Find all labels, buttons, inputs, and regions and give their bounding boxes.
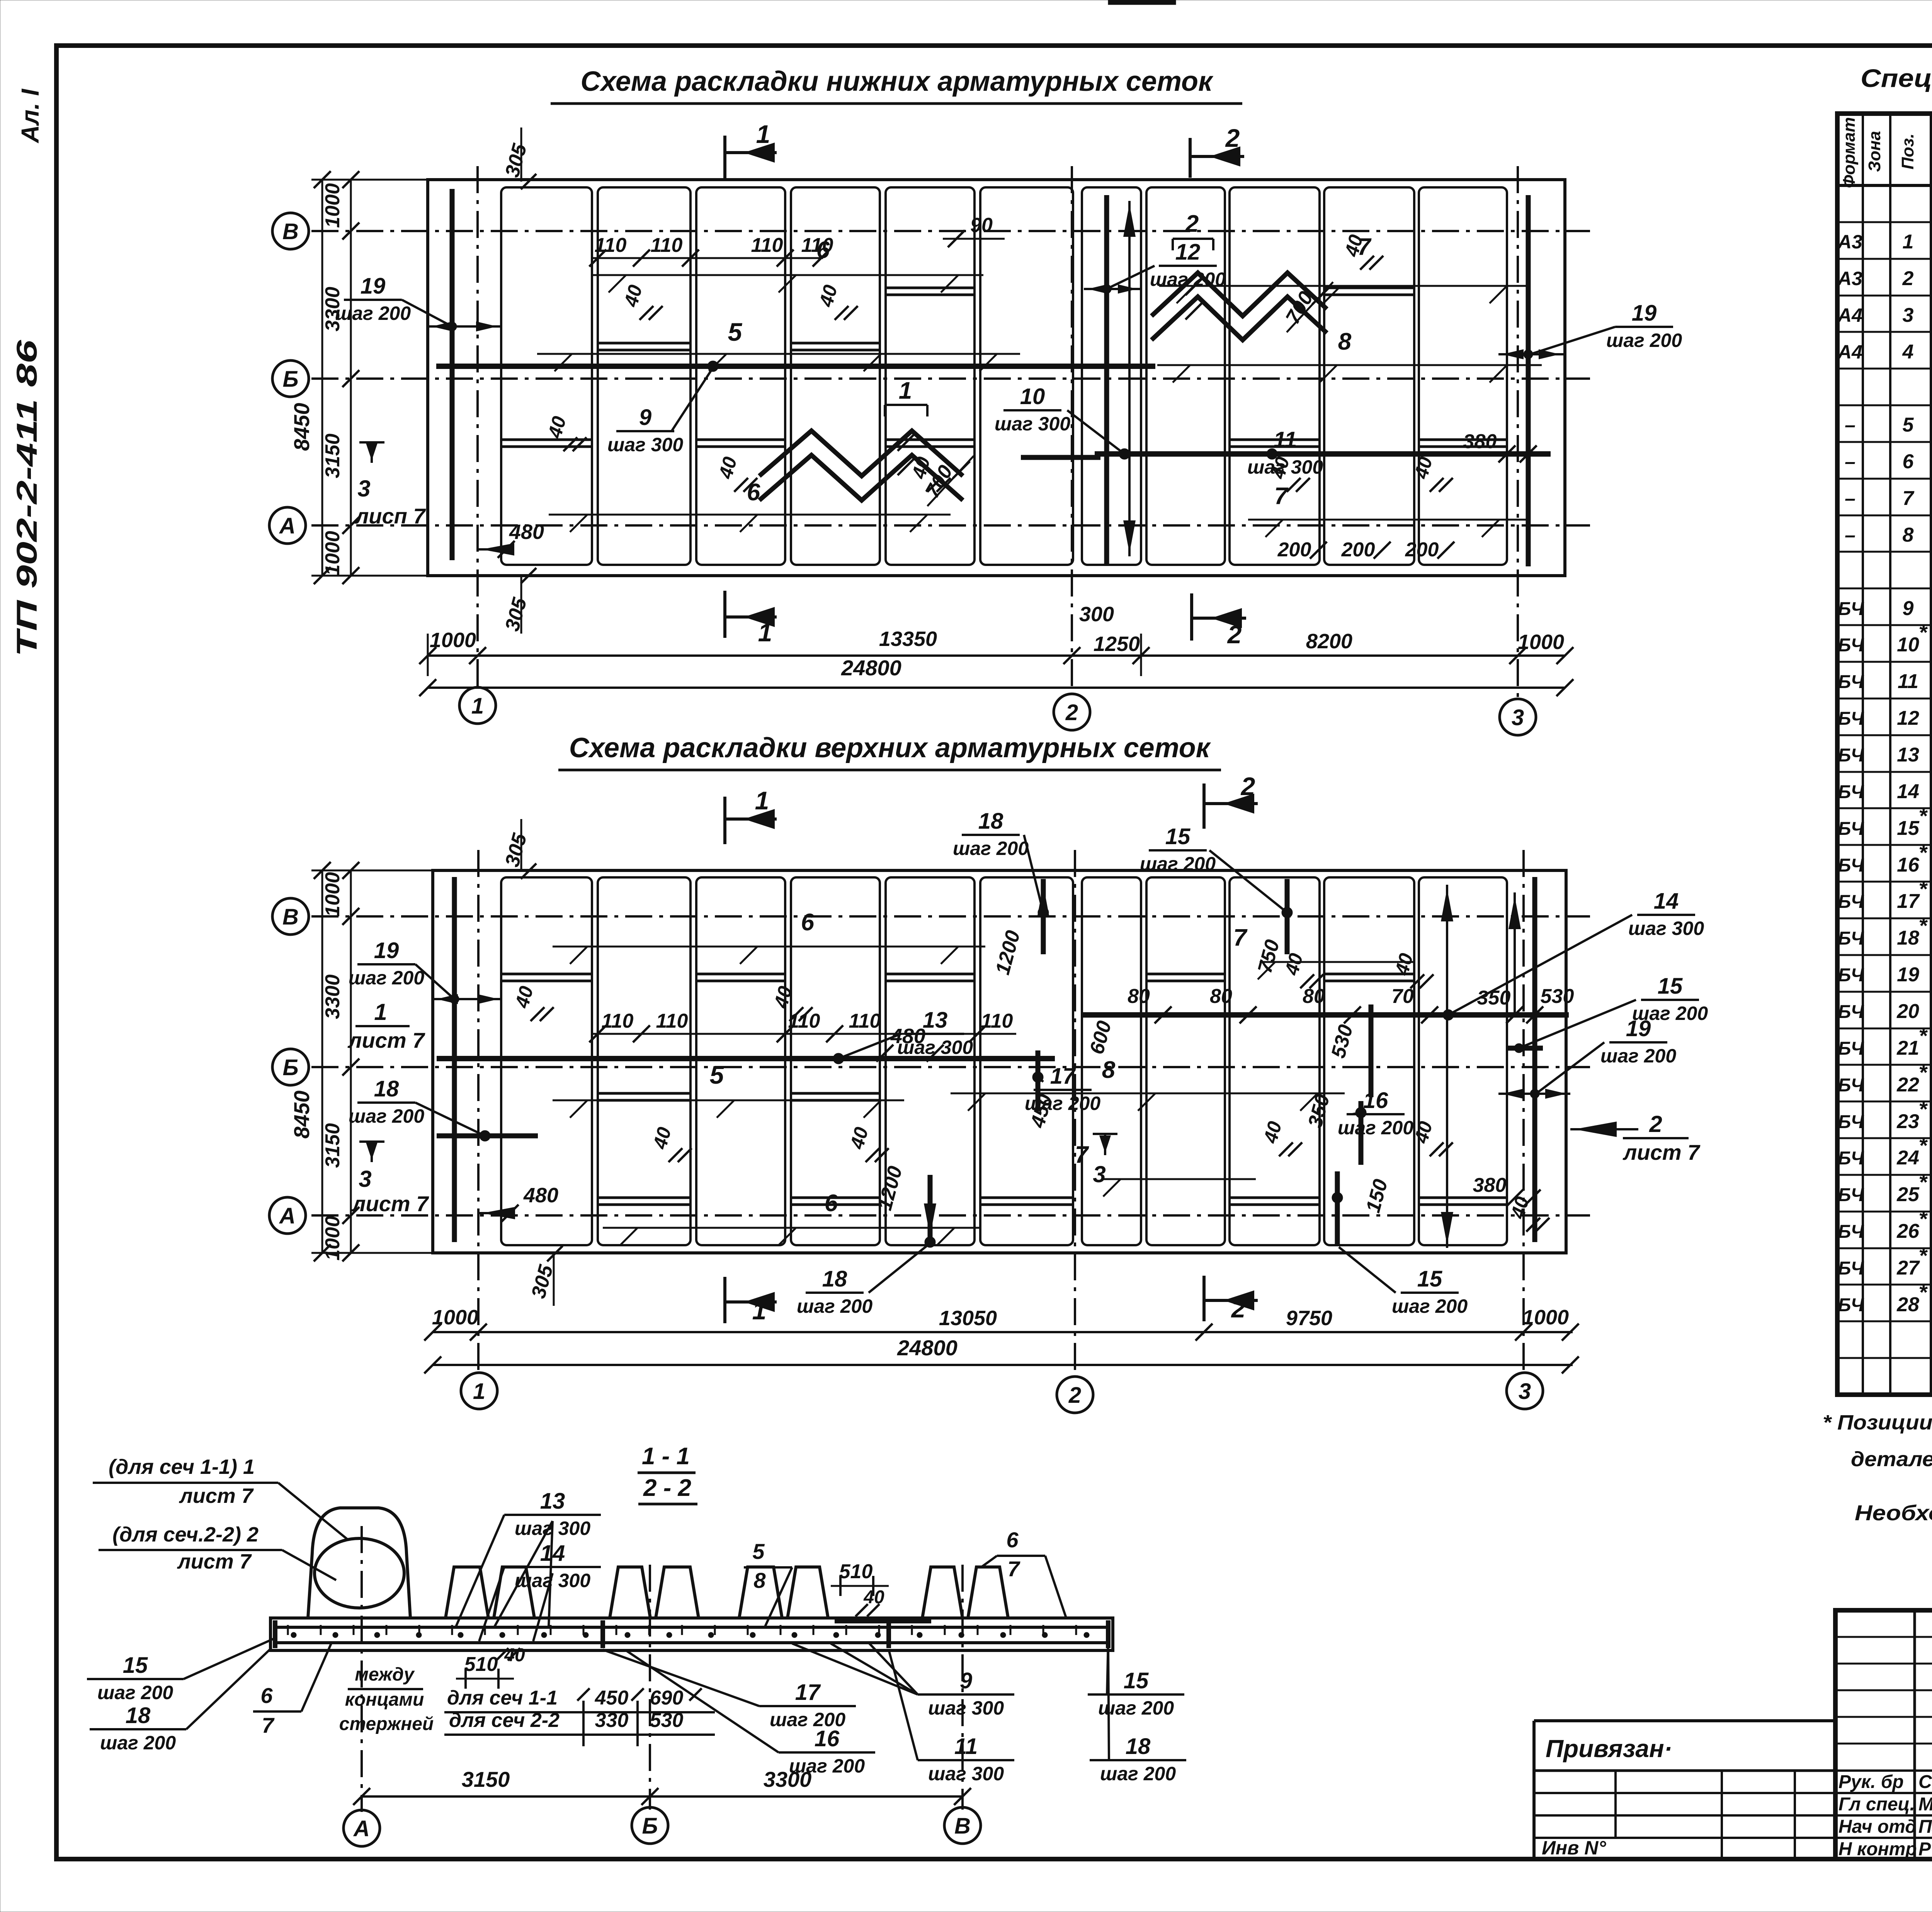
vertical double-arrow dim (upper plan) <box>1446 885 1448 1248</box>
svg-text:БЧ: БЧ <box>1838 1038 1864 1059</box>
plan outline (lower mesh layout) <box>428 180 1565 576</box>
svg-text:1000: 1000 <box>321 872 344 917</box>
svg-text:2: 2 <box>1225 124 1240 152</box>
section axis А <box>361 1526 363 1812</box>
svg-text:1000: 1000 <box>430 629 476 652</box>
svg-text:Панченко: Панченко <box>1918 1817 1932 1837</box>
svg-text:А: А <box>353 1816 370 1841</box>
svg-text:В: В <box>282 219 299 244</box>
svg-text:6: 6 <box>825 1190 838 1217</box>
svg-text:18: 18 <box>978 809 1003 834</box>
svg-text:16: 16 <box>1363 1088 1388 1113</box>
rebar bar 14 thick horizontal right (upper plan) <box>1082 1012 1569 1018</box>
svg-text:Спецификация к схемам армир: Спецификация к схемам армирования днища <box>1861 64 1932 92</box>
svg-text:300: 300 <box>1079 603 1114 626</box>
svg-text:690: 690 <box>650 1687 684 1709</box>
svg-text:БЧ: БЧ <box>1838 635 1864 656</box>
svg-text:Б: Б <box>282 367 298 392</box>
svg-text:*: * <box>1918 840 1928 865</box>
axis circle 2 <box>1054 694 1090 730</box>
svg-text:6: 6 <box>801 909 815 936</box>
svg-text:480: 480 <box>509 520 544 544</box>
axis circle В <box>272 213 309 249</box>
axis line А <box>311 524 1590 527</box>
svg-text:БЧ: БЧ <box>1838 1258 1864 1279</box>
axis line 2 vertical (upper plan) <box>1074 850 1076 1377</box>
svg-text:110: 110 <box>751 234 783 257</box>
svg-text:18: 18 <box>126 1703 151 1728</box>
rebar bar 17 short vertical <box>1036 1050 1041 1111</box>
svg-text:3150: 3150 <box>321 433 344 478</box>
section axis В <box>961 1565 964 1810</box>
svg-text:шаг 200: шаг 200 <box>797 1295 872 1317</box>
svg-text:18: 18 <box>374 1076 399 1101</box>
axis line В <box>311 230 1590 232</box>
axis line 3 vertical (upper plan) <box>1522 850 1525 1373</box>
svg-text:8: 8 <box>1338 328 1352 355</box>
axis circle 2 (upper plan) <box>1057 1377 1093 1413</box>
axis line 1 vertical <box>476 166 479 687</box>
svg-text:12: 12 <box>1175 240 1201 265</box>
svg-text:2: 2 <box>1902 267 1914 290</box>
svg-text:3: 3 <box>1093 1161 1105 1187</box>
svg-text:90: 90 <box>970 214 993 236</box>
svg-text:А4: А4 <box>1837 304 1862 326</box>
svg-text:А3: А3 <box>1837 268 1862 289</box>
svg-text:шаг 300: шаг 300 <box>1628 918 1704 939</box>
svg-text:шаг 200: шаг 200 <box>1140 853 1216 875</box>
svg-text:110: 110 <box>595 234 627 257</box>
axis line Б (upper plan) <box>311 1066 1590 1068</box>
svg-text:*: * <box>1918 1133 1928 1157</box>
svg-text:5: 5 <box>752 1539 765 1564</box>
section mark 1 top <box>723 136 726 180</box>
svg-text:Привязан·: Привязан· <box>1546 1735 1672 1762</box>
svg-text:14: 14 <box>1897 780 1919 803</box>
svg-text:БЧ: БЧ <box>1838 672 1864 692</box>
svg-text:15: 15 <box>123 1653 148 1678</box>
svg-text:3: 3 <box>359 1166 371 1192</box>
slab stirrup ticks <box>287 1625 289 1635</box>
scan artifact top edge <box>1108 0 1176 5</box>
svg-text:3: 3 <box>1519 1379 1531 1404</box>
svg-text:шаг 200: шаг 200 <box>335 303 411 324</box>
svg-text:шаг 200: шаг 200 <box>1392 1295 1468 1317</box>
svg-text:БЧ: БЧ <box>1838 1222 1864 1242</box>
svg-text:Гл спец.: Гл спец. <box>1838 1794 1915 1815</box>
section mark 2 top <box>1189 138 1192 178</box>
rebar bar 18 short vertical bottom <box>928 1175 933 1242</box>
svg-text:концами: концами <box>345 1689 424 1710</box>
svg-text:1000: 1000 <box>432 1306 478 1329</box>
svg-text:2: 2 <box>1185 211 1199 237</box>
svg-text:2: 2 <box>1240 772 1255 800</box>
mesh sheet splits top band <box>598 342 690 345</box>
svg-text:12: 12 <box>1897 707 1919 729</box>
bottom dimension row 2 (24800) <box>428 687 1565 689</box>
svg-text:19: 19 <box>374 938 399 963</box>
svg-text:380: 380 <box>1473 1174 1507 1196</box>
svg-text:1: 1 <box>755 786 769 815</box>
svg-text:110: 110 <box>602 1010 634 1032</box>
axis circle В (upper plan) <box>272 898 309 935</box>
svg-text:200: 200 <box>1341 539 1375 561</box>
svg-text:для сеч 2-2: для сеч 2-2 <box>449 1709 560 1732</box>
axis circle 3 (upper plan) <box>1507 1373 1543 1409</box>
svg-text:шаг 200: шаг 200 <box>789 1755 865 1777</box>
svg-text:3150: 3150 <box>321 1123 344 1168</box>
svg-text:17: 17 <box>795 1680 821 1705</box>
svg-text:80: 80 <box>1210 985 1232 1008</box>
svg-text:19: 19 <box>1632 301 1657 326</box>
svg-text:4: 4 <box>1902 341 1914 363</box>
svg-text:13350: 13350 <box>879 627 937 651</box>
svg-text:шаг 200: шаг 200 <box>100 1732 176 1754</box>
svg-text:110: 110 <box>849 1010 881 1032</box>
section mark 1 bottom (upper plan) <box>723 1277 726 1323</box>
svg-text:А3: А3 <box>1837 231 1862 253</box>
svg-text:18: 18 <box>1897 927 1919 949</box>
left dimension column (top plan) <box>350 180 352 576</box>
section mark 1 bottom <box>723 591 726 638</box>
svg-text:А: А <box>279 1203 296 1229</box>
svg-text:7: 7 <box>1903 487 1915 510</box>
svg-text:15: 15 <box>1897 817 1920 840</box>
mesh sheet columns (upper plan) <box>501 877 592 1245</box>
rebar bar 3 (short thick horizontal) <box>1021 455 1100 460</box>
svg-text:1 - 1: 1 - 1 <box>642 1443 690 1470</box>
svg-text:19: 19 <box>1626 1016 1651 1041</box>
svg-text:27: 27 <box>1896 1257 1920 1279</box>
svg-text:Миллер: Миллер <box>1918 1794 1932 1815</box>
svg-text:БЧ: БЧ <box>1838 892 1864 912</box>
rebar bar 13 thick horizontal (upper plan) <box>437 1056 1055 1061</box>
svg-text:В: В <box>282 904 299 930</box>
svg-text:480: 480 <box>890 1025 925 1048</box>
svg-text:6: 6 <box>260 1683 273 1708</box>
svg-text:–: – <box>1845 488 1855 509</box>
svg-text:Нач отд: Нач отд <box>1838 1817 1917 1837</box>
svg-text:БЧ: БЧ <box>1838 1295 1864 1315</box>
label 3 mark (upper plan) <box>1104 1134 1106 1155</box>
svg-text:1: 1 <box>752 1296 767 1325</box>
axis circle 3 <box>1500 699 1536 735</box>
axis circle А (upper plan) <box>269 1197 306 1234</box>
svg-text:13050: 13050 <box>939 1307 997 1330</box>
svg-text:Рук. бр: Рук. бр <box>1838 1772 1904 1792</box>
inventory mini table <box>1534 1769 1835 1772</box>
svg-text:Инв N°: Инв N° <box>1542 1837 1606 1859</box>
svg-text:2: 2 <box>1227 620 1242 649</box>
svg-text:ТП 902-2-411 86: ТП 902-2-411 86 <box>11 340 43 657</box>
svg-text:В: В <box>954 1813 971 1839</box>
section mark 1 top (upper plan) <box>723 797 726 844</box>
svg-text:БЧ: БЧ <box>1838 599 1864 619</box>
rebar bar short vertical 530 <box>1369 1004 1374 1097</box>
svg-text:24800: 24800 <box>897 1336 957 1360</box>
svg-text:26: 26 <box>1896 1220 1920 1242</box>
axis circle Б <box>272 360 309 397</box>
svg-text:7: 7 <box>1233 925 1248 951</box>
bottom dimension row 1 <box>428 654 1565 657</box>
svg-text:9: 9 <box>639 405 651 430</box>
svg-text:2: 2 <box>1649 1111 1662 1137</box>
svg-text:лисп 7: лисп 7 <box>354 504 426 528</box>
svg-text:БЧ: БЧ <box>1838 745 1864 766</box>
slab top rebar line <box>275 1626 1108 1629</box>
svg-text:Н контр: Н контр <box>1838 1839 1917 1859</box>
svg-text:2: 2 <box>1068 1383 1081 1408</box>
rebar bar 9 (thick horizontal on axis Б) <box>436 364 1155 369</box>
svg-text:1250: 1250 <box>1094 632 1140 656</box>
svg-text:–: – <box>1845 451 1855 472</box>
svg-text:шаг 300: шаг 300 <box>515 1570 590 1591</box>
svg-text:7: 7 <box>1007 1557 1020 1581</box>
svg-text:Схема раскладки нижних арма: Схема раскладки нижних арматурных сеток <box>580 66 1214 97</box>
svg-text:шаг 300: шаг 300 <box>607 434 683 455</box>
svg-text:80: 80 <box>1128 985 1150 1008</box>
rebar bar 19 left thick vertical (upper plan) <box>452 877 457 1242</box>
left dimension column (upper plan) <box>350 870 352 1253</box>
svg-text:110: 110 <box>656 1010 688 1032</box>
svg-text:3300: 3300 <box>321 287 344 331</box>
slab rebar dots <box>291 1632 296 1638</box>
svg-text:70: 70 <box>1391 985 1414 1008</box>
svg-text:110: 110 <box>651 234 683 257</box>
svg-text:3150: 3150 <box>462 1767 510 1791</box>
svg-text:*: * <box>1918 1207 1928 1231</box>
rebar bar 19 left (thick vertical) <box>450 189 455 560</box>
section dome with pipe opening <box>308 1508 410 1618</box>
svg-text:Поз.: Поз. <box>1898 133 1917 169</box>
svg-text:28: 28 <box>1896 1293 1919 1316</box>
svg-text:для сеч 1-1: для сеч 1-1 <box>447 1687 558 1709</box>
svg-text:Зона: Зона <box>1865 131 1884 172</box>
svg-text:*: * <box>1918 1060 1928 1084</box>
svg-text:15: 15 <box>1658 974 1683 999</box>
svg-text:22: 22 <box>1896 1074 1919 1096</box>
привязан strip <box>1534 1719 1835 1722</box>
svg-text:шаг 200: шаг 200 <box>349 1105 424 1127</box>
svg-text:Необходимые технические указ: Необходимые технические указания см на л… <box>1855 1501 1932 1525</box>
svg-text:БЧ: БЧ <box>1838 1185 1864 1205</box>
section mark 2 bottom <box>1190 593 1193 641</box>
svg-text:2: 2 <box>1065 700 1078 725</box>
axis line Б <box>311 377 1590 380</box>
slab vertical end bars <box>273 1620 277 1648</box>
svg-text:БЧ: БЧ <box>1838 1112 1864 1132</box>
svg-text:лист 7: лист 7 <box>179 1484 254 1508</box>
svg-text:1000: 1000 <box>321 531 344 576</box>
svg-text:* Позиции 10, 15, 16, 17, 18,: * Позиции 10, 15, 16, 17, 18, 21, 22, 23… <box>1823 1411 1932 1434</box>
svg-text:6: 6 <box>1006 1528 1019 1552</box>
svg-text:*: * <box>1918 913 1928 938</box>
svg-text:5: 5 <box>728 318 743 346</box>
svg-text:БЧ: БЧ <box>1838 1075 1864 1096</box>
section mark 2 top (upper plan) <box>1202 783 1206 829</box>
axis circle 1 (upper plan) <box>461 1373 497 1409</box>
rebar bar 19 right (thick vertical) <box>1526 195 1531 566</box>
svg-text:3: 3 <box>1512 705 1524 730</box>
rebar bar 18 short horizontal left <box>437 1134 538 1139</box>
svg-text:1: 1 <box>899 377 912 404</box>
svg-text:(для сеч.2-2) 2: (для сеч.2-2) 2 <box>112 1523 259 1546</box>
title block signature rows <box>1835 1769 1932 1772</box>
svg-text:шаг 200: шаг 200 <box>1606 330 1682 351</box>
svg-text:2 - 2: 2 - 2 <box>643 1475 691 1501</box>
svg-text:БЧ: БЧ <box>1838 709 1864 729</box>
svg-text:*: * <box>1918 877 1928 901</box>
svg-text:шаг 200: шаг 200 <box>1600 1045 1676 1067</box>
svg-text:11: 11 <box>1274 427 1297 452</box>
svg-text:8: 8 <box>1903 524 1914 546</box>
svg-text:1: 1 <box>473 1379 485 1404</box>
svg-text:16: 16 <box>815 1726 840 1751</box>
label 3 лисп 7 left <box>371 442 373 463</box>
svg-text:шаг 200: шаг 200 <box>953 838 1029 859</box>
svg-text:15: 15 <box>1417 1266 1442 1292</box>
svg-text:1000: 1000 <box>1518 631 1564 654</box>
svg-text:Руссин: Руссин <box>1918 1839 1932 1859</box>
svg-text:18: 18 <box>822 1266 847 1292</box>
rebar bar 18 short vertical top <box>1041 879 1046 954</box>
section dimension 3150 3300 <box>362 1795 963 1798</box>
svg-text:16: 16 <box>1897 854 1920 876</box>
svg-text:450: 450 <box>595 1687 629 1709</box>
svg-text:17: 17 <box>1050 1064 1076 1089</box>
svg-text:8450: 8450 <box>289 403 314 451</box>
svg-text:8200: 8200 <box>1306 630 1352 653</box>
svg-text:*: * <box>1918 1280 1928 1304</box>
svg-text:шаг 200: шаг 200 <box>349 967 424 989</box>
svg-text:9: 9 <box>1903 597 1914 620</box>
zigzag sheet-break mark 1 (bottom middle) <box>759 431 963 476</box>
svg-text:9750: 9750 <box>1286 1307 1332 1330</box>
section axis Б <box>649 1565 651 1810</box>
svg-text:80: 80 <box>1303 985 1325 1008</box>
rebar bar 10-11 (thick horizontal right) <box>1095 451 1551 457</box>
axis circle А <box>269 507 306 544</box>
svg-text:7: 7 <box>262 1713 275 1737</box>
svg-text:БЧ: БЧ <box>1838 965 1864 986</box>
svg-text:10: 10 <box>1897 634 1919 656</box>
axis circle Б (upper plan) <box>272 1049 309 1085</box>
svg-text:330: 330 <box>595 1709 629 1732</box>
axis line 3 vertical <box>1517 166 1519 699</box>
svg-text:1: 1 <box>1903 231 1914 253</box>
rebar thick vertical right B (upper plan) <box>1532 877 1537 1242</box>
svg-text:15: 15 <box>1165 824 1190 849</box>
svg-text:*: * <box>1918 1243 1928 1268</box>
svg-text:Схема раскладки верхних арм: Схема раскладки верхних арматурных сеток <box>569 733 1211 763</box>
svg-text:*: * <box>1918 1097 1928 1121</box>
svg-text:шаг 200: шаг 200 <box>1100 1763 1176 1785</box>
svg-text:лист 7: лист 7 <box>1622 1140 1701 1164</box>
axis line 1 vertical (upper plan) <box>477 850 480 1373</box>
axis line В (upper plan) <box>311 915 1590 918</box>
mesh sheet splits bottom band <box>501 438 592 441</box>
svg-text:1000: 1000 <box>321 183 344 228</box>
svg-text:20: 20 <box>1896 1000 1919 1023</box>
svg-text:шаг 300: шаг 300 <box>928 1763 1004 1785</box>
svg-text:БЧ: БЧ <box>1838 928 1864 949</box>
svg-text:Стежко: Стежко <box>1918 1772 1932 1792</box>
svg-text:между: между <box>355 1664 415 1685</box>
svg-text:13: 13 <box>923 1008 948 1033</box>
svg-text:шаг 200: шаг 200 <box>97 1682 173 1703</box>
spec table grid <box>1837 114 1932 1395</box>
section ribs (trapezoids) <box>446 1567 488 1618</box>
svg-text:*: * <box>1918 1170 1928 1194</box>
mesh sheet splits (upper plan) <box>501 973 592 976</box>
svg-text:–: – <box>1845 414 1855 436</box>
svg-text:11: 11 <box>1898 670 1918 693</box>
svg-text:6: 6 <box>1903 450 1914 473</box>
zigzag sheet-break mark 2 (top right) <box>1151 273 1327 316</box>
svg-text:380: 380 <box>1463 430 1497 453</box>
svg-text:БЧ: БЧ <box>1838 1148 1864 1169</box>
svg-text:шаг 300: шаг 300 <box>995 413 1070 435</box>
svg-text:110: 110 <box>788 1010 820 1032</box>
axis line 2 vertical <box>1071 166 1073 694</box>
svg-text:стержней: стержней <box>339 1714 434 1734</box>
mesh sheet columns <box>501 187 592 565</box>
svg-text:510: 510 <box>464 1653 498 1676</box>
axis line А (upper plan) <box>311 1214 1590 1217</box>
svg-text:530: 530 <box>650 1709 684 1732</box>
vertical double-arrow at strip <box>1128 201 1131 556</box>
svg-text:1000: 1000 <box>1522 1306 1569 1329</box>
svg-text:5: 5 <box>1903 414 1914 436</box>
svg-text:23: 23 <box>1896 1110 1919 1133</box>
svg-text:18: 18 <box>1126 1734 1151 1759</box>
svg-text:17: 17 <box>1897 890 1920 913</box>
plan outline (upper mesh layout) <box>433 870 1566 1253</box>
axis circle 1 <box>459 687 496 724</box>
svg-text:лист 7: лист 7 <box>351 1191 430 1216</box>
svg-text:*: * <box>1918 620 1928 644</box>
svg-text:9: 9 <box>960 1668 972 1693</box>
svg-text:10: 10 <box>1020 384 1045 409</box>
svg-text:8: 8 <box>1102 1057 1116 1083</box>
svg-text:7: 7 <box>1075 1142 1089 1168</box>
svg-text:11: 11 <box>954 1734 978 1759</box>
svg-text:БЧ: БЧ <box>1838 819 1864 839</box>
svg-text:110: 110 <box>981 1010 1013 1032</box>
section slab outline <box>270 1618 1113 1650</box>
svg-text:3: 3 <box>357 476 370 501</box>
svg-text:1: 1 <box>758 618 772 647</box>
svg-text:1: 1 <box>756 120 770 148</box>
svg-text:21: 21 <box>1896 1037 1919 1059</box>
svg-text:350: 350 <box>1477 987 1511 1009</box>
svg-text:7: 7 <box>1274 483 1289 510</box>
svg-text:Формат: Формат <box>1840 117 1859 188</box>
svg-text:А: А <box>279 513 296 539</box>
svg-text:8: 8 <box>753 1568 766 1592</box>
title block verticals left grid <box>1913 1610 1916 1859</box>
svg-text:480: 480 <box>523 1184 558 1207</box>
svg-text:19: 19 <box>361 274 386 299</box>
svg-text:200: 200 <box>1405 539 1439 561</box>
svg-text:шаг 200: шаг 200 <box>1338 1117 1413 1139</box>
svg-text:–: – <box>1845 524 1855 546</box>
svg-text:1: 1 <box>374 999 387 1025</box>
section mark 2 bottom (upper plan) <box>1202 1276 1206 1321</box>
svg-text:лист 7: лист 7 <box>347 1028 426 1052</box>
svg-text:14: 14 <box>540 1541 565 1566</box>
bottom dimension row 2 24800 (upper plan) <box>433 1364 1573 1366</box>
